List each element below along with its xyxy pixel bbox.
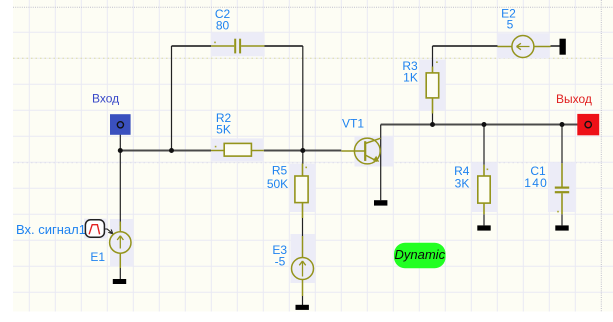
selection box C1 xyxy=(548,162,576,212)
wire E3 to ground xyxy=(302,296,304,305)
wire R5 branch xyxy=(302,151,304,165)
wire main horizontal left xyxy=(120,46,585,151)
svg-text:1K: 1K xyxy=(403,71,418,85)
ground under VT1 xyxy=(374,200,387,205)
svg-text:Dynamic: Dynamic xyxy=(395,247,446,262)
resistor R3 xyxy=(426,67,439,114)
selection box R2 xyxy=(211,138,264,161)
svg-text:E1: E1 xyxy=(90,250,105,264)
wire C1 top xyxy=(561,125,563,164)
selection box VT1 xyxy=(355,136,394,167)
ground under R4 xyxy=(477,225,490,230)
selection box R5 xyxy=(290,164,316,213)
selection box E1 xyxy=(110,219,133,267)
wire bus right xyxy=(381,124,586,126)
selection box icon Вх.сигнал1 xyxy=(84,219,107,239)
svg-text:5K: 5K xyxy=(216,123,231,137)
junction node dots xyxy=(118,122,565,153)
selection box R4 xyxy=(471,162,498,212)
resistor R5 xyxy=(295,164,308,219)
source E2 xyxy=(498,36,551,58)
wire C2 right vertical xyxy=(302,46,304,151)
wire R4 top xyxy=(483,125,485,165)
capacitor C1 xyxy=(555,163,569,214)
svg-text:80: 80 xyxy=(216,19,230,33)
output node square xyxy=(577,114,599,135)
ground under C1 xyxy=(555,225,568,230)
waveform icon Вх.сигнал1 xyxy=(85,220,104,238)
wire E2 rail xyxy=(433,45,498,47)
svg-text:3K: 3K xyxy=(455,177,470,191)
wire C1 bottom xyxy=(561,214,563,225)
resistor R2 xyxy=(211,143,264,156)
wire Вход to main xyxy=(119,128,121,226)
page boundary dotted right xyxy=(600,0,602,312)
svg-text:Вход: Вход xyxy=(92,92,119,106)
svg-text:Выход: Выход xyxy=(556,92,592,106)
svg-text:VT1: VT1 xyxy=(342,117,364,131)
selection box E2 xyxy=(497,33,550,58)
selection box R3 xyxy=(419,60,445,111)
input node square xyxy=(110,114,131,135)
wire R3 top xyxy=(432,46,434,67)
page boundary dotted mid2 xyxy=(13,162,601,164)
page boundary dotted top xyxy=(13,6,613,8)
selection box C2 xyxy=(211,33,265,57)
ground under E3 xyxy=(296,305,309,310)
wire R3 bottom xyxy=(432,114,434,125)
svg-text:50K: 50K xyxy=(267,177,288,191)
wire R4 bottom xyxy=(483,214,485,225)
source E1 xyxy=(110,222,131,269)
selection box E3 xyxy=(291,234,316,283)
capacitor C2 xyxy=(211,39,265,54)
wire VT1 collector-emitter vertical xyxy=(380,125,382,201)
wire E1 bottom xyxy=(119,268,121,279)
page boundary dotted mid (olive) xyxy=(13,57,601,59)
svg-text:5: 5 xyxy=(507,17,514,31)
svg-text:-5: -5 xyxy=(275,255,286,269)
arrow icon to E1 xyxy=(104,229,112,233)
ground under E1 xyxy=(113,279,126,284)
svg-text:R5: R5 xyxy=(272,164,288,178)
resistor R4 xyxy=(478,165,490,215)
svg-text:Вх. сигнал1: Вх. сигнал1 xyxy=(16,222,86,237)
wire top C2 horizontal xyxy=(172,45,212,47)
wire C2 left vertical xyxy=(171,46,173,151)
ground terminal E2 xyxy=(560,39,566,55)
source E3 xyxy=(292,236,314,296)
svg-text:140: 140 xyxy=(524,176,548,190)
Dynamic badge xyxy=(394,243,446,268)
wire R5 to E3 xyxy=(302,218,304,236)
pin marker dots xyxy=(214,42,559,213)
transistor VT1 xyxy=(341,138,380,164)
